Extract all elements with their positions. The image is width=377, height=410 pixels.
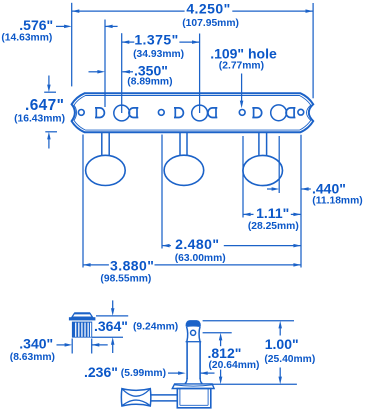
svg-text:(11.18mm): (11.18mm) <box>312 195 362 206</box>
svg-text:4.250": 4.250" <box>186 0 230 16</box>
dim .812 arrows <box>219 333 223 341</box>
dim .440 arrows <box>267 188 273 190</box>
dim .364 arrows <box>112 300 114 309</box>
reverse-D hole 2 <box>208 108 217 118</box>
svg-text:(34.93mm): (34.93mm) <box>133 49 184 60</box>
button face scoop curves <box>123 389 150 405</box>
ext line post3 <box>278 136 280 193</box>
screw hole 2 <box>158 110 164 116</box>
dim 1.375 ext line left <box>121 33 123 113</box>
dim 1.375 ext line right <box>199 34 201 114</box>
post shaft <box>186 342 188 379</box>
plate outline outer <box>72 93 314 132</box>
dim .812 top ref line <box>203 332 232 334</box>
svg-text:(8.89mm): (8.89mm) <box>127 77 172 88</box>
tuner button 1 <box>86 155 126 185</box>
svg-text:1.11": 1.11" <box>256 205 289 221</box>
screw hole 3 <box>239 110 245 116</box>
reverse-D hole 3 <box>286 108 295 118</box>
dim .340 ticks <box>71 339 73 354</box>
svg-text:(16.43mm): (16.43mm) <box>14 114 65 125</box>
ext line tuner1 left <box>82 135 84 268</box>
svg-text:.109" hole: .109" hole <box>210 45 277 61</box>
D-shaped hole 2 <box>174 108 183 118</box>
D-shaped hole 1 <box>95 108 104 118</box>
svg-text:(28.25mm): (28.25mm) <box>248 221 299 232</box>
dim 1.11 line <box>243 213 254 215</box>
svg-text:1.00": 1.00" <box>265 336 299 352</box>
dim .340 arrows <box>57 344 66 346</box>
ext line tuner2 left <box>161 135 163 249</box>
dim 4.250 ext line left <box>71 3 73 87</box>
D-shaped hole 3 <box>252 108 261 118</box>
dim .576 ext line <box>104 20 106 108</box>
screw hole 4 <box>298 109 304 115</box>
ext line plate right-end <box>300 135 302 268</box>
screw hole 1 <box>78 110 84 116</box>
dim .647 ticks and arrows <box>44 91 56 93</box>
string post hole 2 <box>192 105 208 121</box>
post head <box>187 326 201 341</box>
dim 1.375 line <box>122 41 135 43</box>
svg-text:(14.63mm): (14.63mm) <box>1 32 52 43</box>
tuner button shaft 1 <box>101 133 103 156</box>
tuner button 2 <box>164 155 204 185</box>
post neck step <box>186 341 202 343</box>
svg-text:.440": .440" <box>312 181 346 197</box>
tuner button 3 <box>243 155 283 185</box>
bushing knurled body <box>72 322 92 338</box>
mount plate cap <box>172 384 214 389</box>
dim .576 arrows <box>56 25 65 27</box>
svg-text:.647": .647" <box>25 97 64 114</box>
reverse-D hole 1 <box>129 108 138 118</box>
svg-text:2.480": 2.480" <box>175 236 219 252</box>
svg-text:(98.55mm): (98.55mm) <box>100 273 151 284</box>
dim .350 arrows <box>89 71 99 73</box>
svg-text:(2.77mm): (2.77mm) <box>219 61 264 72</box>
svg-text:1.375": 1.375" <box>134 32 178 48</box>
tuner button side view <box>121 389 151 406</box>
dim 1.00 top ref line <box>203 320 294 322</box>
dim .109 leader arrow <box>241 74 243 102</box>
shared bottom ref line <box>212 383 297 385</box>
svg-text:3.880": 3.880" <box>110 257 154 273</box>
svg-text:(25.40mm): (25.40mm) <box>264 354 315 365</box>
svg-text:.236": .236" <box>84 364 118 380</box>
dim .236 arrows <box>168 372 179 374</box>
post shaft flare <box>185 378 203 384</box>
post cap <box>186 321 200 326</box>
dim 3.880 line <box>83 264 109 266</box>
dim .364 ref lines <box>96 315 128 317</box>
svg-text:.340": .340" <box>19 336 53 352</box>
svg-text:.364": .364" <box>94 318 128 334</box>
svg-text:.576": .576" <box>19 17 53 33</box>
svg-text:.812": .812" <box>208 345 242 361</box>
bushing flange <box>69 317 96 320</box>
dim 4.250 line <box>72 10 185 12</box>
string post hole 1 <box>114 105 130 121</box>
dim 2.480 line <box>162 245 171 247</box>
svg-text:(5.99mm): (5.99mm) <box>121 368 166 379</box>
tuner button shaft 2 <box>179 133 181 156</box>
plate outline inner <box>74 96 311 131</box>
svg-text:(63.00mm): (63.00mm) <box>175 253 226 264</box>
dim 1.00 arrows <box>278 321 282 329</box>
string hole <box>191 330 196 335</box>
svg-text:(8.63mm): (8.63mm) <box>10 352 55 363</box>
button stem <box>150 394 177 396</box>
string post hole 3 <box>271 105 287 121</box>
svg-text:(20.64mm): (20.64mm) <box>209 360 260 371</box>
gear housing box <box>177 389 211 408</box>
tuner button shaft 3 <box>258 133 260 156</box>
dim 4.250 ext line right <box>312 3 314 98</box>
ext line tuner3 left <box>242 136 244 218</box>
svg-text:(9.24mm): (9.24mm) <box>133 322 178 333</box>
bushing head <box>72 314 93 318</box>
svg-text:(107.95mm): (107.95mm) <box>182 18 239 29</box>
